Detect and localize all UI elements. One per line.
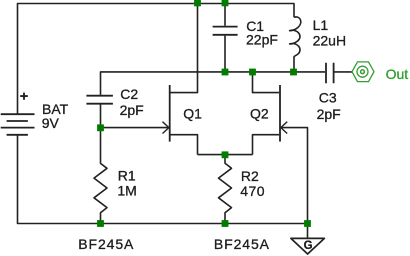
- svg-text:C3: C3: [319, 89, 337, 105]
- svg-text:C2: C2: [120, 86, 138, 102]
- svg-text:R2: R2: [241, 168, 259, 184]
- svg-text:Q2: Q2: [250, 105, 269, 121]
- svg-text:G: G: [304, 240, 313, 252]
- svg-text:R1: R1: [118, 167, 136, 183]
- svg-text:2pF: 2pF: [317, 106, 341, 122]
- svg-text:2pF: 2pF: [120, 102, 144, 118]
- svg-text:9V: 9V: [42, 115, 60, 131]
- svg-text:1M: 1M: [117, 182, 136, 198]
- svg-text:22uH: 22uH: [313, 32, 346, 48]
- svg-text:Q1: Q1: [183, 105, 202, 121]
- svg-text:L1: L1: [313, 17, 329, 33]
- svg-text:470: 470: [240, 183, 265, 199]
- svg-text:Out: Out: [386, 66, 409, 82]
- svg-text:22pF: 22pF: [246, 31, 278, 47]
- svg-text:BF245A: BF245A: [78, 236, 134, 252]
- svg-text:BF245A: BF245A: [214, 236, 270, 252]
